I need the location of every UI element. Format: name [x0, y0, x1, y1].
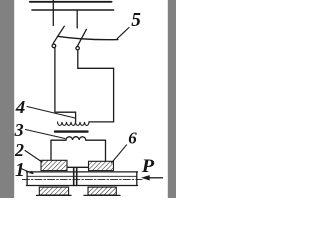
svg-text:6: 6 — [128, 129, 137, 148]
clamp shoe lower-left (hatched) — [39, 187, 68, 195]
rod centerline (dash-dot) — [22, 179, 142, 181]
leader line for 5 — [117, 28, 129, 39]
pole shoe upper-left (hatched, labelled 2) — [41, 160, 67, 170]
force arrow P — [141, 175, 163, 180]
pole shoe upper-right (hatched, labelled 6) — [89, 161, 114, 170]
contact K2 blade — [77, 29, 86, 46]
leader line for 2 — [25, 151, 42, 163]
mechanical link line through both contact blades (labelled 5) — [58, 36, 119, 39]
coil Y (winding loops, labelled 4) — [58, 122, 90, 126]
contact K1 blade — [53, 26, 64, 43]
leader line for 6 — [111, 145, 126, 163]
electromagnet body top edge with winding bumps (labelled 3) — [51, 137, 106, 141]
rod surface line — [28, 175, 136, 177]
svg-text:5: 5 — [131, 9, 141, 31]
coil core line — [55, 130, 88, 132]
svg-text:2: 2 — [14, 140, 24, 160]
leader line for 1 (with arrow) — [21, 169, 33, 174]
wire: vertical drop from top edge through both buses to contact K1 — [52, 0, 54, 26]
svg-text:4: 4 — [15, 97, 26, 117]
svg-text:3: 3 — [14, 120, 24, 140]
wire: K1 circle down to coil corner — [55, 48, 76, 122]
contact K1 fixed terminal circle — [52, 44, 56, 48]
wire: vertical drop from bus L2 to contact K2 — [76, 10, 78, 28]
right gray scan band — [168, 0, 176, 198]
lower-left shoe base lip — [37, 194, 72, 196]
rod butt joint left line — [73, 168, 75, 186]
svg-text:1: 1 — [15, 160, 25, 181]
bus line L1 (top) — [30, 1, 112, 3]
svg-text:P: P — [141, 156, 155, 177]
electromagnet body right edge — [105, 140, 107, 161]
leader line for 3 — [26, 130, 66, 139]
rod (labelled 1) top edge — [26, 171, 137, 173]
contact K2 fixed terminal circle — [76, 47, 79, 50]
electromagnet bottom edge between poles — [67, 166, 89, 168]
rod butt joint right line — [76, 168, 78, 186]
bus line L2 — [32, 9, 114, 11]
wire: K2 circle down, right, down to coil right side — [78, 50, 114, 122]
electromagnet body left edge — [50, 140, 52, 160]
clamp shoe lower-right (hatched) — [88, 187, 116, 195]
lower-right shoe base lip — [84, 194, 120, 196]
rod bottom edge — [26, 185, 137, 187]
leader 1 arrowhead — [29, 171, 34, 174]
rod left end cap — [26, 172, 28, 186]
leader line for 4 — [27, 107, 75, 119]
rod right end cap — [136, 172, 138, 186]
left gray scan band — [0, 0, 14, 198]
